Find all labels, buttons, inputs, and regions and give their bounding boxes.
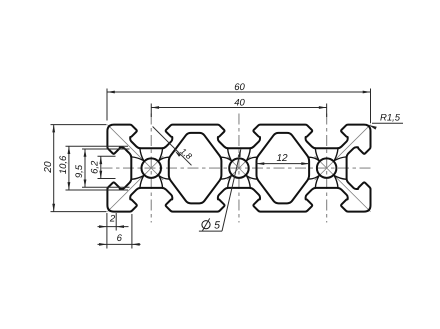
diagonal centerline TR corner through hole 3 xyxy=(315,125,371,181)
diagonal centerline BL corner through hole 1 xyxy=(107,156,163,212)
svg-text:5: 5 xyxy=(214,220,220,232)
dimension 10,6 xyxy=(68,146,70,190)
dimension 6,2 xyxy=(100,156,102,178)
dimension 10,6 extension lines xyxy=(66,145,129,147)
dimension 12 xyxy=(256,163,309,165)
dimension 60 xyxy=(107,91,371,93)
dimension 9,5 extension lines xyxy=(82,148,130,150)
svg-text:60: 60 xyxy=(234,82,245,93)
dimension 20 extension lines xyxy=(51,124,107,126)
interior cavity octagon 1 xyxy=(169,133,222,203)
bore web hooks xyxy=(140,149,144,161)
svg-text:40: 40 xyxy=(234,97,245,108)
vertical centerline hole 1 xyxy=(150,114,152,223)
dimension 60 extension lines xyxy=(106,89,108,121)
diameter symbol xyxy=(202,221,210,229)
diagonal centerline TL corner through hole 1 xyxy=(107,125,163,181)
profile outline with V-slots xyxy=(107,125,370,212)
svg-text:10,6: 10,6 xyxy=(58,155,69,174)
dimension 6 xyxy=(98,243,141,245)
interior cavity octagon 2 xyxy=(256,133,309,203)
dimension 40 extension lines xyxy=(150,104,152,118)
svg-text:12: 12 xyxy=(276,153,288,164)
dimension 6,2 extension lines xyxy=(98,155,116,157)
svg-text:9,5: 9,5 xyxy=(74,164,85,178)
horizontal centerline xyxy=(102,167,373,169)
vertical centerline hole 2 xyxy=(238,114,240,223)
diagonal centerline X at hole 2 (up-right) xyxy=(227,157,250,180)
center hole 1 xyxy=(142,158,162,178)
diagonal centerline BR corner through hole 3 xyxy=(315,156,371,212)
dimension 9,5 xyxy=(84,149,86,187)
leader R1,5 xyxy=(372,122,403,124)
svg-text:6: 6 xyxy=(117,233,123,244)
vertical centerline hole 3 xyxy=(326,114,328,223)
svg-text:6,2: 6,2 xyxy=(90,160,101,174)
svg-text:R1,5: R1,5 xyxy=(380,112,401,123)
center hole 2 xyxy=(229,158,249,178)
leader diameter 5 xyxy=(222,149,241,231)
diagonal centerline X at hole 2 (down-right) xyxy=(227,157,250,180)
dimension 2 extension lines xyxy=(106,213,108,249)
dimension 2 xyxy=(98,226,129,228)
leader 1,8 xyxy=(153,127,192,166)
svg-text:20: 20 xyxy=(43,161,54,174)
center hole 3 xyxy=(317,158,337,178)
svg-text:2: 2 xyxy=(109,214,116,225)
dimension 20 xyxy=(53,125,55,212)
dimension 40 xyxy=(151,107,326,109)
dimension 6 extension line xyxy=(131,214,133,249)
